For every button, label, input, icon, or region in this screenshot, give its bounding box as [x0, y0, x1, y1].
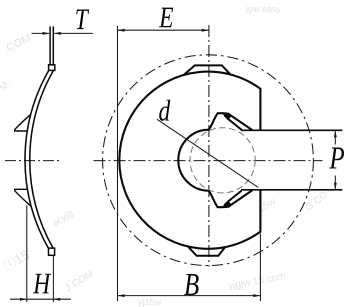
B arrow right: [253, 294, 260, 297]
inner tab thickness line bottom: [227, 191, 241, 203]
inner tab bend blob top: [223, 113, 231, 120]
side view inner arc: [30, 71, 54, 249]
inner tab thickness line top: [227, 118, 241, 130]
horizontal centerline: [94, 160, 323, 162]
outer tab 6 o'clock: [188, 247, 225, 256]
H dimension line: [10, 298, 71, 300]
right chord lower segment: [259, 190, 261, 233]
leader line for d: [157, 119, 258, 187]
slot top edge: [241, 129, 342, 131]
slot bottom edge: [241, 189, 342, 191]
second line of pair: [52, 26, 54, 65]
T dimension line: [32, 32, 94, 34]
P dimension line lower: [334, 176, 336, 190]
upper inner tab wedge (side view): [15, 114, 31, 131]
washer body outline (circle cut by right chord): [119, 72, 260, 249]
label T: [76, 9, 89, 29]
lower inner tab wedge (side view): [15, 189, 31, 206]
E dimension line: [118, 29, 209, 31]
P arrow down: [334, 183, 337, 190]
bottom bend square: [49, 248, 55, 255]
label B: [184, 274, 198, 295]
label H: [33, 274, 51, 294]
vertical centerline: [208, 25, 210, 267]
inner tab bend blob bottom: [223, 200, 231, 207]
top bend square: [49, 65, 55, 71]
label d: [159, 100, 170, 121]
H arrow right: [53, 298, 60, 301]
side view outer arc: [25, 71, 49, 249]
E arrow right: [202, 29, 209, 32]
T arrow left: [43, 32, 50, 35]
B dimension line: [118, 295, 261, 297]
P dimension line upper: [334, 130, 336, 144]
right chord upper segment: [259, 88, 261, 130]
T arrow right: [54, 32, 61, 35]
B right extension line: [259, 234, 261, 302]
H extension line right: [52, 256, 54, 302]
outer tab 12 o'clock: [184, 65, 231, 75]
E/B left extension line: [117, 26, 119, 301]
center hole with bent inner tabs: [178, 113, 252, 207]
centerline left view: [5, 160, 59, 162]
B arrow left: [118, 294, 125, 297]
watermark fragments: [2, 32, 33, 55]
phantom outer dash-dot circle: [103, 55, 314, 266]
H arrow left: [20, 298, 27, 301]
P arrow up: [334, 131, 337, 138]
H extension line left: [26, 206, 28, 303]
label P: [329, 148, 344, 169]
washer top tab edge-on (vertical line pair, thickness T): [49, 26, 51, 65]
dashed bore circle d: [190, 128, 255, 193]
label E: [159, 8, 173, 28]
E arrow left: [118, 29, 125, 32]
